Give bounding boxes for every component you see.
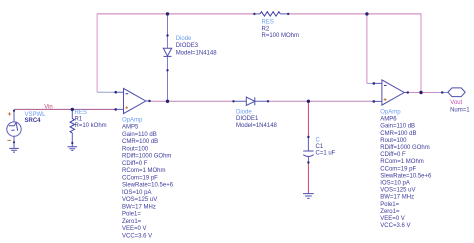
svg-text:CMR=100 dB: CMR=100 dB: [380, 131, 416, 137]
minus sign of SRC4: [7, 139, 11, 141]
svg-text:RDiff=1000 GOhm: RDiff=1000 GOhm: [122, 154, 171, 160]
port Vout hexagon: [448, 88, 465, 97]
wire: AMP6 output to port Vout: [408, 92, 442, 94]
wire: capacitor C1 bottom pin to ground: [307, 163, 309, 194]
svg-text:BW=17 MHz: BW=17 MHz: [122, 204, 156, 210]
svg-text:VEE=0 V: VEE=0 V: [380, 216, 405, 222]
op-amp U1 AMP5: [116, 88, 150, 113]
svg-text:RES: RES: [75, 110, 87, 116]
svg-text:Vout: Vout: [450, 100, 462, 106]
resistor R2: [254, 12, 288, 16]
svg-text:VOS=125 uV: VOS=125 uV: [380, 188, 415, 194]
svg-text:DIODE3: DIODE3: [176, 43, 199, 49]
wire: top feedback net left segment: [97, 13, 254, 15]
wire: right vertical from top net down to AMP6 output junction: [420, 13, 422, 92]
wire: stub into AMP6 inverting input: [367, 82, 374, 84]
svg-text:R=100 MOhm: R=100 MOhm: [262, 33, 300, 39]
ground below R1: [68, 147, 78, 151]
svg-text:VCC=3.6 V: VCC=3.6 V: [122, 233, 152, 239]
wire: DIODE1 cathode to AMP6 non-inverting input: [268, 100, 374, 102]
op-amp U2 AMP6: [374, 80, 408, 105]
svg-text:RDiff=1000 GOhm: RDiff=1000 GOhm: [380, 145, 429, 151]
voltage source SRC4 (VSPWL): [7, 109, 21, 148]
wire: left vertical feedback to AMP5 inverting input: [96, 13, 98, 92]
resistor R1: [70, 109, 74, 146]
wire: DIODE3 top lead from top net: [167, 14, 169, 48]
svg-text:OpAmp: OpAmp: [122, 117, 143, 123]
parameter list op-amp AMP6: [380, 110, 432, 230]
svg-text:BW=17 MHz: BW=17 MHz: [380, 195, 414, 201]
wire: AMP5 output to DIODE1 anode: [150, 100, 234, 102]
svg-text:Vin: Vin: [44, 104, 53, 110]
svg-text:Zero1=: Zero1=: [122, 219, 142, 225]
svg-text:Model=1N4148: Model=1N4148: [236, 123, 278, 129]
diode DIODE3 (vertical, anode top): [163, 48, 171, 56]
svg-text:VOS=125 uV: VOS=125 uV: [122, 197, 157, 203]
svg-text:R=10 kOhm: R=10 kOhm: [75, 123, 107, 129]
node Vin: wire from source through R1 to AMP5 non-inverting input: [14, 108, 116, 110]
svg-text:C1: C1: [316, 144, 324, 150]
svg-text:R2: R2: [262, 26, 270, 32]
wire: junction down to capacitor C1 top pin: [307, 101, 309, 137]
svg-text:SlewRate=10.5e+6: SlewRate=10.5e+6: [122, 183, 174, 189]
pin dots: [13, 13, 444, 164]
svg-text:VEE=0 V: VEE=0 V: [122, 226, 147, 232]
plus sign of SRC4: [8, 112, 11, 115]
svg-text:Diode: Diode: [236, 109, 252, 115]
ground below C1: [303, 194, 314, 199]
capacitor C1: [303, 137, 313, 163]
ground below SRC4: [9, 148, 19, 152]
svg-text:CMR=100 dB: CMR=100 dB: [122, 139, 158, 145]
svg-text:Num=1: Num=1: [450, 107, 470, 113]
svg-text:AMP5: AMP5: [122, 125, 139, 131]
svg-text:IOS=10 pA: IOS=10 pA: [122, 190, 152, 196]
svg-text:VCC=3.6 V: VCC=3.6 V: [380, 223, 410, 229]
svg-text:R1: R1: [75, 117, 83, 123]
wire: port pin stub: [442, 92, 448, 94]
svg-text:Pole1=: Pole1=: [380, 202, 399, 208]
svg-text:Rout=100: Rout=100: [122, 146, 149, 152]
svg-text:Model=1N4148: Model=1N4148: [176, 50, 218, 56]
svg-text:CDiff=0 F: CDiff=0 F: [122, 161, 148, 167]
svg-text:IOS=10 pA: IOS=10 pA: [380, 181, 410, 187]
svg-text:Zero1=: Zero1=: [380, 209, 400, 215]
svg-text:SRC4: SRC4: [25, 118, 42, 124]
svg-text:DIODE1: DIODE1: [236, 116, 259, 122]
diode DIODE1 (horizontal, anode left): [234, 97, 269, 105]
svg-text:C: C: [316, 137, 321, 143]
svg-text:CCom=19 pF: CCom=19 pF: [122, 175, 158, 181]
wire: stub into AMP5 inverting input: [97, 91, 116, 93]
svg-text:CDiff=0 F: CDiff=0 F: [380, 152, 406, 158]
svg-text:Gain=110 dB: Gain=110 dB: [122, 132, 157, 138]
wire: top feedback net right segment: [288, 13, 421, 15]
wire: DIODE3 bottom lead to AMP5 output net: [167, 56, 169, 101]
svg-text:Pole1=: Pole1=: [122, 212, 141, 218]
svg-text:AMP6: AMP6: [380, 117, 397, 123]
svg-text:RCom=1 MOhm: RCom=1 MOhm: [380, 159, 424, 165]
svg-text:Gain=110 dB: Gain=110 dB: [380, 124, 415, 130]
svg-text:OpAmp: OpAmp: [380, 110, 401, 116]
svg-text:RES: RES: [262, 19, 274, 25]
parameter list op-amp AMP5: [122, 117, 174, 239]
wire: vertical from top net down to AMP6 inverting input: [366, 13, 368, 83]
svg-text:SlewRate=10.5e+6: SlewRate=10.5e+6: [380, 173, 432, 179]
svg-text:RCom=1 MOhm: RCom=1 MOhm: [122, 168, 166, 174]
svg-text:Diode: Diode: [176, 36, 192, 42]
plus marker inside AMP5: [125, 106, 128, 109]
svg-text:Rout=100: Rout=100: [380, 138, 407, 144]
svg-text:C=1 uF: C=1 uF: [316, 150, 336, 156]
svg-text:CCom=19 pF: CCom=19 pF: [380, 166, 416, 172]
plus marker inside AMP6: [384, 98, 387, 101]
